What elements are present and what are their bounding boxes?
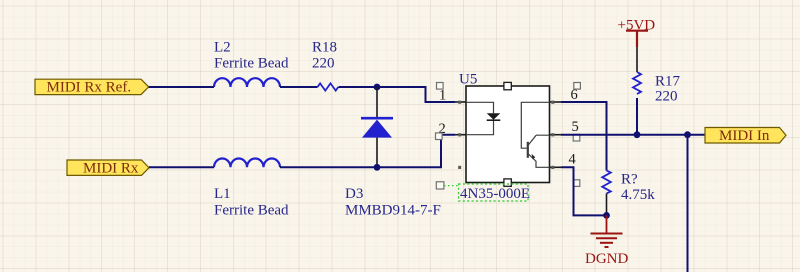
wire bottom rail from L1 to U5 pin 2 xyxy=(280,135,455,168)
wire from R18 to U5 pin 1 xyxy=(339,87,456,102)
value label 4N35-000E with green dashed frame xyxy=(459,184,531,202)
svg-text:5: 5 xyxy=(572,119,579,135)
pin 4 of U5 xyxy=(550,166,562,168)
svg-text:MIDI Rx Ref.: MIDI Rx Ref. xyxy=(47,80,132,96)
svg-text:220: 220 xyxy=(312,56,335,72)
ground DGND stem xyxy=(606,215,608,233)
marker square near pin 2 xyxy=(436,133,443,140)
wire from pin 5 to MIDI In port xyxy=(561,134,705,136)
svg-text:MIDI In: MIDI In xyxy=(719,128,770,144)
wire from pin 6 to R? xyxy=(561,102,607,171)
svg-text:MIDI Rx: MIDI Rx xyxy=(83,161,139,177)
resistor R? xyxy=(602,171,611,194)
svg-text:220: 220 xyxy=(655,89,678,105)
green dotted leader line xyxy=(444,185,459,187)
wire from pin 4 to ground junction xyxy=(561,167,607,215)
wire from R? to ground junction xyxy=(606,194,608,216)
svg-text:R?: R? xyxy=(621,172,638,188)
diode D3 xyxy=(361,118,393,137)
U5 phototransistor xyxy=(528,135,550,167)
junction bottom rail / D3 anode xyxy=(374,164,381,171)
resistor R17 xyxy=(633,72,641,94)
wire from R17 to pin 5 wire xyxy=(636,98,638,135)
wire D3 cathode lead xyxy=(376,87,378,117)
wire top rail from port to L2 xyxy=(149,86,214,88)
U5 box top edge square xyxy=(504,82,511,89)
pin 1 of U5 xyxy=(455,101,466,103)
svg-text:U5: U5 xyxy=(459,72,477,88)
pin 6 of U5 xyxy=(550,101,562,103)
svg-text:D3: D3 xyxy=(345,186,363,202)
inductor L2 xyxy=(214,78,280,87)
marker square near pin 1 xyxy=(437,83,444,90)
svg-text:R17: R17 xyxy=(655,74,681,90)
pin 2 of U5 xyxy=(455,134,466,136)
svg-text:R18: R18 xyxy=(312,40,337,56)
port MIDI Rx xyxy=(67,160,149,177)
U5 internal phototransistor base wiring xyxy=(521,102,549,148)
svg-text:4.75k: 4.75k xyxy=(621,187,655,203)
svg-text:4: 4 xyxy=(569,152,577,168)
U5 box bottom edge square xyxy=(504,179,511,186)
marker square near pin 6 xyxy=(574,83,581,90)
wire dropping to sheet bottom xyxy=(687,135,689,272)
marker square near pin 5 xyxy=(573,134,580,141)
U5 internal LED wiring xyxy=(466,102,494,134)
svg-text:Ferrite Bead: Ferrite Bead xyxy=(214,203,289,219)
power +5VD bar symbol xyxy=(626,31,648,47)
svg-text:MMBD914-7-F: MMBD914-7-F xyxy=(345,203,441,219)
wire from L2 to R18 xyxy=(280,86,318,88)
inductor L1 xyxy=(214,159,280,168)
port MIDI In xyxy=(705,128,786,145)
marker square near pin 4 xyxy=(573,180,580,187)
ground DGND symbol xyxy=(591,234,623,248)
wire D3 anode lead xyxy=(376,138,378,168)
marker square near 4N35 label xyxy=(436,182,444,189)
op-to-coupler U5 body xyxy=(466,86,550,183)
junction ground node xyxy=(603,212,610,219)
pin name glyphs at U5 box edges xyxy=(458,101,554,169)
svg-text:L1: L1 xyxy=(214,186,231,202)
R17 top lead xyxy=(636,47,638,72)
resistor R18 xyxy=(318,83,339,90)
port MIDI Rx Ref. xyxy=(35,79,149,95)
U5 internal LED symbol xyxy=(487,113,501,120)
svg-text:DGND: DGND xyxy=(585,251,628,267)
junction MIDI In branch xyxy=(684,131,691,138)
svg-text:L2: L2 xyxy=(214,40,231,56)
svg-text:1: 1 xyxy=(439,88,446,104)
wire bottom rail from port to L1 xyxy=(149,166,214,168)
pin 5 of U5 xyxy=(550,134,562,136)
junction R17 / pin 5 wire xyxy=(634,131,641,138)
svg-text:4N35-000E: 4N35-000E xyxy=(460,186,530,202)
junction top rail / D3 cathode xyxy=(374,84,381,91)
svg-text:Ferrite Bead: Ferrite Bead xyxy=(214,56,289,72)
